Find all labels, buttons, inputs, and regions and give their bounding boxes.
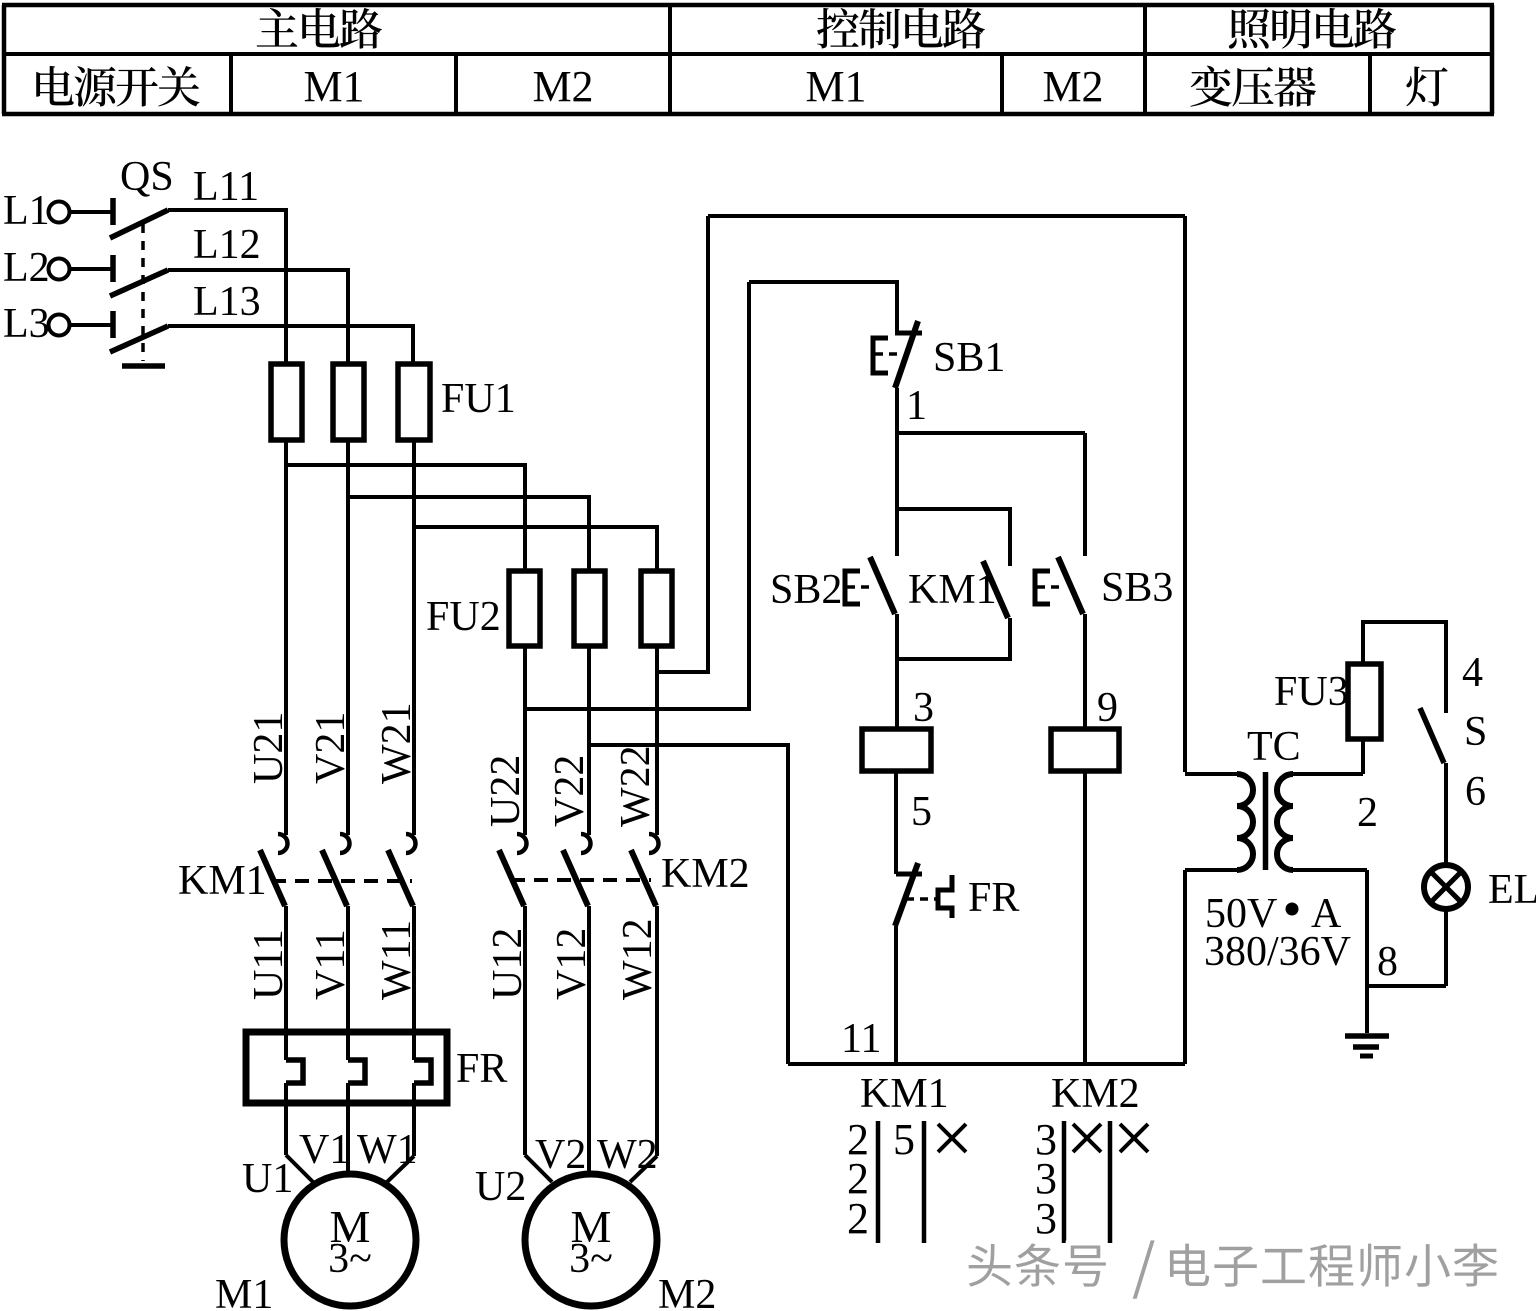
svg-text:M1: M1: [303, 62, 364, 111]
table cell 灯 (lamp): [1406, 66, 1447, 106]
wire W1 bend into motor: [387, 1156, 414, 1182]
svg-text:QS: QS: [120, 154, 174, 200]
svg-text:M2: M2: [1042, 62, 1103, 111]
coil KM1: [862, 729, 931, 771]
KM2 contacts linkage dashed: [511, 878, 651, 882]
terminal L2: [49, 259, 70, 280]
svg-text:V12: V12: [549, 928, 595, 1000]
svg-text:380/36V: 380/36V: [1204, 929, 1351, 975]
fuse FU2 element 2: [574, 571, 605, 646]
motor M1 circle: [284, 1174, 416, 1306]
wire U22 phase (fuse1 down): [523, 646, 527, 835]
wire U21 phase: [284, 440, 288, 835]
table header 控制电路 (control circuit): [817, 8, 985, 49]
wire control top rail: [708, 214, 1185, 218]
coil KM2: [1051, 729, 1119, 771]
svg-text:SB3: SB3: [1101, 565, 1173, 611]
wire right rail lower segment: [1183, 870, 1187, 1064]
contactor KM2 main contacts: [517, 834, 527, 853]
table header 照明电路 (lighting circuit): [1229, 8, 1396, 49]
SB3 operator dashed: [1037, 585, 1062, 589]
SB3 blade: [1058, 557, 1083, 614]
svg-text:FR: FR: [968, 875, 1019, 921]
QS contact bar L3: [110, 311, 116, 338]
TC secondary top wire: [1291, 772, 1363, 776]
KM1 contacts linkage dashed: [272, 879, 412, 883]
SB2 operator dashed: [847, 585, 872, 589]
wire L3 stub: [70, 323, 112, 327]
svg-text:U22: U22: [483, 755, 529, 827]
QS blade L1: [110, 210, 168, 238]
svg-text:W11: W11: [374, 920, 420, 1000]
svg-text:L11: L11: [193, 164, 259, 210]
QS contact bar L1: [110, 198, 116, 225]
svg-text:EL: EL: [1488, 867, 1536, 913]
svg-text:U1: U1: [242, 1156, 293, 1202]
wire tap to control top rail: [657, 216, 708, 672]
svg-text:V21: V21: [308, 712, 354, 784]
wire V21 phase: [346, 440, 350, 835]
wire V11: [346, 906, 350, 1060]
lamp EL X stroke 1: [1431, 872, 1461, 902]
svg-text:6: 6: [1465, 769, 1486, 815]
svg-text:3: 3: [1035, 1194, 1057, 1243]
wire FR contact to bottom rail: [894, 926, 898, 1064]
wire SB2 to coil KM1: [895, 614, 899, 729]
svg-text:L1: L1: [3, 188, 50, 234]
svg-text:8: 8: [1377, 939, 1398, 985]
svg-text:W12: W12: [615, 918, 661, 1000]
TC primary top wire: [1185, 772, 1239, 776]
wire W21 phase: [412, 440, 416, 835]
svg-text:4: 4: [1462, 650, 1483, 696]
watermark 头条号 / 电子工程师小李: [964, 1235, 1498, 1298]
fuse FU3: [1348, 664, 1381, 739]
wire U11: [284, 906, 288, 1060]
SB1 operator dashed: [875, 352, 900, 356]
svg-text:W2: W2: [597, 1132, 658, 1178]
svg-text:SB1: SB1: [933, 335, 1005, 381]
wire coil KM2 to bottom rail: [1083, 771, 1087, 1064]
svg-text:9: 9: [1097, 685, 1118, 731]
wire U1 bend into motor: [286, 1155, 313, 1182]
wire V22 phase (fuse2 down): [587, 646, 591, 835]
svg-text:1: 1: [906, 383, 927, 429]
wire through FU2-1: [523, 571, 527, 646]
fuse FU1 element 2: [333, 364, 364, 440]
wire SB3 to coil KM2: [1083, 614, 1087, 729]
contactor KM1 main contacts: [278, 834, 288, 853]
wire W11: [412, 906, 416, 1060]
svg-text:SB2: SB2: [770, 567, 842, 613]
svg-text:M2: M2: [532, 62, 593, 111]
FR heater element at x=348: [348, 1060, 365, 1083]
svg-text:L12: L12: [193, 222, 261, 268]
svg-text:M1: M1: [215, 1272, 273, 1311]
FR contact blade: [895, 863, 918, 926]
wire KM1 aux branch top: [897, 509, 1010, 566]
wire tap to control inner rail: [525, 282, 749, 709]
TC core bar: [1263, 772, 1269, 870]
ground symbol: [1345, 1033, 1389, 1039]
motor M2 circle: [525, 1174, 657, 1306]
table header 主电路 (main circuit): [257, 8, 382, 49]
svg-text:3~: 3~: [328, 1236, 372, 1282]
svg-text:W1: W1: [357, 1127, 418, 1173]
svg-text:V22: V22: [547, 755, 593, 827]
terminal L1: [49, 202, 70, 223]
TC secondary bottom wire: [1291, 868, 1367, 872]
fuse FU1 element 3: [398, 364, 430, 440]
svg-text:5: 5: [893, 1115, 915, 1164]
wire right rail down to TC primary: [1183, 216, 1187, 772]
SB2 blade: [870, 557, 895, 614]
wire U22... W22 phase (fuse3 down): [655, 646, 659, 835]
wire W2 bend into motor: [630, 1156, 657, 1182]
svg-text:S: S: [1464, 709, 1487, 755]
wire FU3 to switch S: [1363, 622, 1446, 713]
svg-text:M1: M1: [805, 62, 866, 111]
TC secondary winding: [1277, 774, 1293, 870]
SB1 fixed contact bar: [895, 331, 922, 336]
wire through FU1-2: [346, 364, 350, 440]
svg-text:L13: L13: [193, 279, 261, 325]
QS linkage dashed: [141, 224, 145, 361]
svg-text:KM1: KM1: [860, 1071, 949, 1117]
QS linkage bar: [122, 363, 165, 369]
FR heater element at x=414: [414, 1060, 431, 1083]
QS blade L3: [110, 326, 168, 352]
wire secondary to ground: [1365, 870, 1369, 1033]
svg-text:V1: V1: [299, 1127, 350, 1173]
wire node1 branch: [897, 431, 1085, 435]
fuse FU1 element 1: [271, 364, 302, 440]
wire lamp return: [1367, 984, 1446, 988]
TC primary winding: [1237, 774, 1253, 870]
wire TC secondary to FU3: [1361, 739, 1365, 774]
svg-text:11: 11: [841, 1016, 881, 1062]
svg-text:3~: 3~: [569, 1236, 613, 1282]
wire L11: [168, 210, 286, 364]
header table borders: [2, 3, 1494, 8]
wire SB1 to node 1: [895, 388, 899, 433]
svg-text:U11: U11: [246, 929, 292, 1000]
wire branch L13 to FU2-3: [414, 527, 657, 571]
svg-text:V2: V2: [535, 1132, 586, 1178]
wire V1 into motor: [346, 1155, 350, 1174]
wire branch L12 to FU2-2: [348, 497, 589, 571]
svg-text:FU2: FU2: [426, 594, 501, 640]
wire coil KM1 to FR contact: [894, 771, 898, 874]
wire inner rail to SB1: [749, 282, 897, 333]
wire KM1 aux branch bottom: [897, 618, 1010, 659]
wire control bottom rail: [788, 1062, 1185, 1066]
wire L1 stub: [70, 210, 112, 214]
wire W1: [412, 1083, 416, 1156]
thermal relay FR heater box: [246, 1032, 447, 1103]
QS contact bar L2: [110, 255, 116, 282]
lamp EL circle: [1424, 865, 1468, 909]
svg-text:2: 2: [1357, 790, 1378, 836]
svg-text:TC: TC: [1247, 724, 1301, 770]
QS blade L2: [110, 270, 168, 296]
SB1 blade: [895, 321, 918, 388]
svg-text:FU1: FU1: [441, 376, 516, 422]
svg-text:U12: U12: [485, 928, 531, 1000]
svg-text:L3: L3: [3, 301, 50, 347]
svg-text:KM1: KM1: [908, 567, 997, 613]
wire through FU2-2: [587, 571, 591, 646]
table cell 变压器 (transformer): [1190, 66, 1316, 107]
svg-text:U2: U2: [475, 1164, 526, 1210]
svg-text:M2: M2: [658, 1272, 716, 1311]
fuse FU2 element 3: [641, 571, 672, 646]
wire down to SB3: [1083, 433, 1087, 556]
wire through FU1-3: [412, 364, 416, 440]
wire L2 stub: [70, 267, 112, 271]
wire S to lamp: [1444, 763, 1448, 866]
svg-text:W21: W21: [374, 702, 420, 784]
wire tap to control bottom rail: [589, 745, 788, 1064]
svg-text:W22: W22: [613, 745, 659, 827]
wire L12: [168, 270, 348, 364]
svg-text:2: 2: [847, 1194, 869, 1243]
wire V12: [587, 906, 591, 1174]
svg-text:L2: L2: [3, 245, 50, 291]
svg-text:KM2: KM2: [661, 851, 750, 897]
svg-text:FU3: FU3: [1274, 669, 1349, 715]
FR contact fixed bar: [896, 872, 922, 877]
wire lamp to return: [1444, 908, 1448, 986]
wire down to SB2: [895, 433, 899, 556]
wire through FU2-3: [655, 571, 659, 646]
FR heater element at x=286: [286, 1060, 303, 1083]
wire W12: [655, 906, 659, 1156]
svg-text:KM1: KM1: [178, 858, 267, 904]
svg-text:KM2: KM2: [1051, 1071, 1140, 1117]
svg-text:U21: U21: [246, 712, 292, 784]
table cell 电源开关 (power switch): [36, 66, 199, 107]
FR contact dashed link: [906, 897, 937, 901]
terminal L3: [49, 315, 70, 336]
fuse FU2 element 1: [509, 571, 540, 646]
TC primary bottom wire: [1185, 868, 1239, 872]
svg-text:3: 3: [913, 685, 934, 731]
wire through FU1-1: [284, 364, 288, 440]
wire branch L11 to FU2-1: [286, 465, 525, 571]
contact KM1 aux blade: [983, 561, 1008, 618]
switch S blade: [1420, 708, 1444, 763]
svg-text:V11: V11: [308, 929, 354, 1000]
lamp EL X stroke 2: [1431, 872, 1461, 902]
svg-text:FR: FR: [456, 1046, 507, 1092]
svg-text:5: 5: [911, 789, 932, 835]
wire U2 bend into motor: [525, 1155, 552, 1182]
wire L13: [168, 326, 413, 364]
wire U12: [523, 906, 527, 1155]
